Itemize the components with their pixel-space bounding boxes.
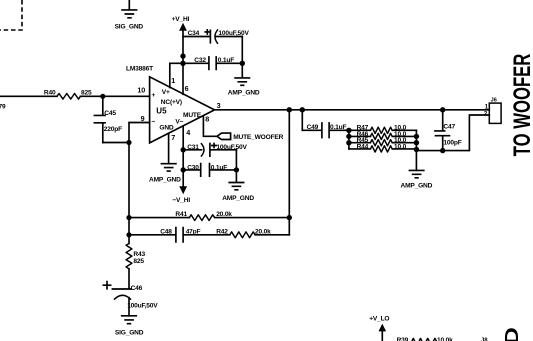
svg-text:TO WOOFER: TO WOOFER [509, 54, 533, 157]
svg-text:C31: C31 [187, 144, 199, 151]
wire feedback bus down [128, 143, 130, 244]
node junction bus/C48 [126, 232, 131, 237]
connector J8 (partial at bottom edge) [481, 338, 488, 341]
tag MUTE_WOOFER [217, 133, 284, 141]
node dot lower [180, 61, 185, 66]
capacitor C46 [103, 282, 158, 316]
svg-text:825: 825 [133, 258, 144, 265]
svg-text:C32: C32 [194, 57, 206, 64]
svg-text:MUTE_WOOFER: MUTE_WOOFER [233, 134, 283, 141]
resistor R39 (partial at bottom edge) [397, 337, 454, 341]
svg-text:79: 79 [0, 103, 6, 110]
svg-text:NC(+V): NC(+V) [161, 99, 182, 106]
node junction output/feedback [287, 107, 292, 112]
svg-text:LM3886T: LM3886T [126, 65, 153, 72]
svg-text:100uF,50V: 100uF,50V [216, 144, 247, 151]
svg-text:100uF,50V: 100uF,50V [218, 30, 249, 37]
resistor R44 [349, 143, 417, 152]
node 79 (left edge net stub) [0, 103, 6, 110]
svg-text:10: 10 [137, 86, 145, 95]
wire pin 7 to ground [168, 133, 170, 163]
svg-text:20.0k: 20.0k [216, 211, 232, 218]
capacitor C49 [302, 123, 349, 138]
node junction C45/feedback bus [126, 140, 131, 145]
wire R40 to op-amp +input (pin 10) [80, 95, 149, 97]
wire parallel-resistor right bus [415, 130, 417, 170]
svg-text:100uF,50V: 100uF,50V [127, 302, 158, 309]
wire pin 6 / +V_HI stem [182, 30, 184, 94]
resistor R42 [216, 229, 289, 238]
node junction right bus R44 [414, 147, 419, 152]
svg-text:47pF: 47pF [186, 229, 201, 236]
wire zobel branch down from output [301, 110, 303, 131]
svg-text:C46: C46 [131, 285, 143, 292]
svg-text:+V_LO: +V_LO [369, 316, 389, 323]
svg-text:R44: R44 [357, 143, 369, 150]
wire C34 right side down [241, 37, 243, 64]
svg-text:AMP_GND: AMP_GND [401, 183, 433, 190]
connector J6 [484, 97, 501, 123]
wire C31 right side down [235, 150, 237, 170]
node junction R41/output bus [287, 215, 292, 220]
svg-text:10.0k: 10.0k [437, 337, 453, 341]
svg-text:4: 4 [186, 128, 190, 137]
node junction C30/C31 [234, 167, 239, 172]
op-amp U5 LM3886T [126, 65, 215, 142]
wire parallel-resistor left bus [348, 130, 350, 149]
resistor R47 [349, 125, 417, 134]
svg-text:C48: C48 [160, 229, 172, 236]
resistor R45 [349, 137, 417, 146]
resistor R46 [349, 131, 417, 140]
label TO MID (partial, letter D at bottom edge) [501, 327, 522, 341]
svg-text:R41: R41 [175, 211, 187, 218]
svg-text:C49: C49 [307, 124, 319, 131]
ground AMP_GND (C30/C31) [222, 170, 254, 202]
capacitor C31 [183, 143, 247, 156]
capacitor C34 [183, 30, 249, 44]
wire output pin 3 to J6 pin 1 [215, 109, 490, 111]
svg-text:R43: R43 [133, 251, 145, 258]
svg-text:MUTE: MUTE [183, 112, 202, 119]
svg-text:GND: GND [159, 124, 174, 131]
svg-text:0.1uF: 0.1uF [330, 124, 346, 131]
power +V_HI [172, 16, 190, 31]
svg-text:C47: C47 [443, 123, 455, 130]
svg-text:220pF: 220pF [104, 126, 122, 133]
svg-text:3: 3 [217, 101, 221, 110]
wire right bus to J6 pin 2 [416, 115, 489, 151]
node junction pin4/C31 [181, 147, 186, 152]
svg-text:R42: R42 [216, 229, 228, 236]
svg-text:C34: C34 [188, 30, 200, 37]
label TO WOOFER [509, 54, 533, 157]
capacitor C48 [129, 228, 230, 242]
wire inverting input (pin 9) [129, 123, 150, 143]
node junction C49/left bus [346, 128, 351, 133]
wire input to R40 [0, 95, 57, 97]
svg-text:0.1uF: 0.1uF [218, 57, 234, 64]
svg-text:C30: C30 [187, 164, 199, 171]
svg-text:SIG_GND: SIG_GND [115, 329, 144, 336]
svg-text:1: 1 [171, 76, 175, 85]
wire pin 4 negative supply stem [182, 126, 184, 186]
node junction right bus R45 [414, 140, 419, 145]
wire feedback right bus [288, 110, 290, 235]
resistor R40 [44, 90, 92, 99]
svg-text:D: D [501, 327, 522, 341]
svg-text:R39: R39 [397, 337, 409, 341]
svg-text:V−: V− [175, 118, 183, 125]
node dot upper [180, 53, 185, 58]
node junction C32/C34 [240, 61, 245, 66]
ground SIG_GND (bottom) [115, 316, 144, 337]
power +V_LO [369, 316, 389, 341]
svg-text:+: + [152, 92, 156, 99]
svg-text:100pF: 100pF [443, 139, 461, 146]
node junction output/C47 [440, 107, 445, 112]
svg-text:0.1uF: 0.1uF [211, 164, 227, 171]
wire C45 to inverting bus [103, 142, 129, 144]
node junction right bus R46 [414, 134, 419, 139]
node junction pin4/C30 [181, 167, 186, 172]
svg-text:V+: V+ [162, 89, 170, 96]
dashed enclosure corner (top-left) [0, 0, 22, 30]
svg-text:10.0: 10.0 [394, 143, 407, 150]
node junction C47 bottom [440, 148, 445, 153]
ground AMP_GND (C32/C34) [228, 63, 260, 96]
svg-text:8: 8 [205, 114, 209, 123]
wire pin 1 to supply stem [170, 63, 183, 87]
svg-text:J6: J6 [491, 97, 497, 103]
svg-text:−: − [152, 119, 156, 126]
resistor R43 [126, 244, 145, 289]
node junction at R40 / C45 [100, 94, 105, 99]
capacitor C47 [435, 110, 462, 151]
svg-text:U5: U5 [156, 106, 167, 115]
resistor R41 feedback [129, 211, 289, 220]
capacitor C45 [94, 96, 122, 142]
node junction left bus R46 [346, 134, 351, 139]
svg-text:C45: C45 [104, 110, 116, 117]
svg-text:AMP_GND: AMP_GND [228, 89, 260, 96]
svg-text:SIG_GND: SIG_GND [115, 24, 144, 31]
capacitor C30 [183, 164, 236, 177]
svg-text:R40: R40 [44, 90, 56, 97]
svg-text:6: 6 [185, 84, 189, 93]
node junction left bus R45 [346, 140, 351, 145]
svg-text:+V_HI: +V_HI [172, 16, 190, 23]
svg-text:9: 9 [141, 114, 145, 123]
svg-text:AMP_GND: AMP_GND [149, 177, 181, 184]
svg-text:AMP_GND: AMP_GND [222, 195, 254, 202]
capacitor C32 [183, 57, 242, 69]
ground AMP_GND (pin 7) [149, 164, 181, 184]
wire mute pin 8 [203, 116, 217, 137]
node junction bus/R41 [126, 215, 131, 220]
ground AMP_GND (zobel) [401, 170, 433, 189]
svg-text:20.0k: 20.0k [255, 229, 271, 236]
svg-text:−V_HI: −V_HI [172, 197, 190, 204]
svg-text:7: 7 [171, 133, 175, 142]
node junction output/zobel [300, 107, 305, 112]
ground SIG_GND (top) [115, 0, 144, 31]
power -V_HI [172, 186, 190, 204]
